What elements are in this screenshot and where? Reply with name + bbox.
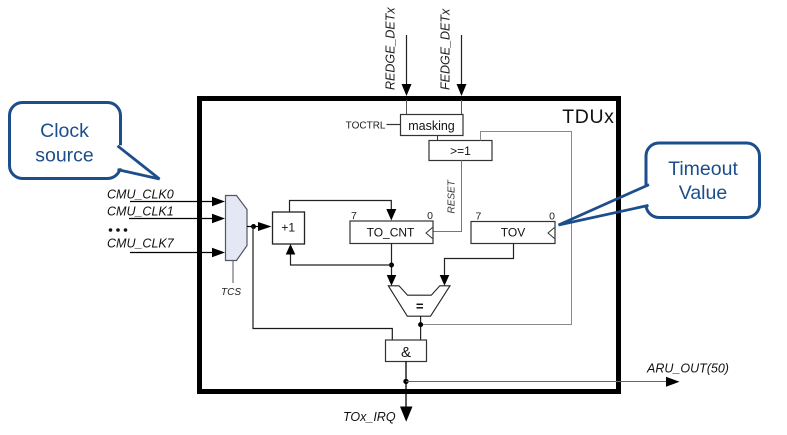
- comparator = (equality): [388, 286, 450, 316]
- module boundary TDUx: [200, 99, 619, 392]
- ellipsis dots: [109, 228, 113, 232]
- svg-text:REDGE_DETx: REDGE_DETx: [384, 7, 398, 90]
- wire ARU_OUT(50): [406, 381, 667, 383]
- svg-text:CMU_CLK7: CMU_CLK7: [107, 237, 175, 251]
- svg-text:TDUx: TDUx: [562, 106, 614, 128]
- wire CMU_CLK1: [129, 218, 213, 220]
- svg-text:TOx_IRQ: TOx_IRQ: [343, 410, 396, 424]
- OR gate >=1: [429, 141, 492, 161]
- wire comparator output to AND gate: [420, 316, 422, 340]
- arrowhead ARU_OUT: [666, 377, 680, 387]
- svg-text:TOCTRL: TOCTRL: [346, 121, 386, 132]
- callout bubble Timeout Value: [559, 143, 760, 225]
- junction mux output: [251, 224, 256, 229]
- wire +1 to TO_CNT: [290, 201, 397, 221]
- junction TO_CNT output: [389, 263, 394, 268]
- junction comparator output: [418, 322, 423, 327]
- mux TCS input arrows: [129, 197, 225, 258]
- svg-text:Clock: Clock: [40, 120, 89, 142]
- svg-text:&: &: [401, 344, 411, 361]
- junction AND output: [403, 379, 408, 384]
- wire mux junction to AND gate (left input): [253, 227, 392, 341]
- wire feedback from comparator output to OR gate: [421, 132, 572, 325]
- svg-text:ARU_OUT(50): ARU_OUT(50): [646, 362, 729, 376]
- wire TOV output to comparator right input: [440, 244, 514, 286]
- counter TO_CNT: [350, 210, 433, 244]
- svg-text:TOV: TOV: [501, 226, 525, 240]
- wire AND output down to TOx_IRQ: [405, 362, 407, 411]
- incrementer +1: [273, 212, 305, 244]
- clock marker TO_CNT: [426, 228, 433, 239]
- AND gate &: [386, 340, 427, 362]
- arrow into comparator left input: [387, 275, 397, 286]
- wire REDGE_DETx input arrow: [402, 35, 412, 115]
- mux TCS (clock selector): [226, 196, 248, 261]
- svg-text:FEDGE_DETx: FEDGE_DETx: [439, 8, 453, 90]
- arrowhead TOx_IRQ: [400, 407, 413, 422]
- register TOV: [471, 211, 555, 244]
- svg-text:CMU_CLK0: CMU_CLK0: [107, 188, 174, 202]
- svg-text:0: 0: [427, 210, 433, 222]
- svg-text:TCS: TCS: [221, 287, 241, 298]
- wire TOCTRL to masking: [387, 124, 401, 126]
- svg-text:+1: +1: [281, 221, 295, 235]
- callout bubble Clock source: [10, 103, 160, 180]
- clock marker TOV: [548, 228, 555, 239]
- svg-text:0: 0: [549, 211, 555, 223]
- wire TCS stub: [232, 261, 234, 284]
- block masking: [401, 115, 464, 136]
- wire TO_CNT output feedback to +1: [286, 244, 392, 265]
- svg-text:CMU_CLK1: CMU_CLK1: [107, 205, 174, 219]
- svg-text:Timeout: Timeout: [668, 158, 738, 180]
- svg-text:TO_CNT: TO_CNT: [367, 226, 415, 240]
- svg-text:masking: masking: [408, 119, 455, 133]
- wire CMU_CLK7: [130, 252, 213, 254]
- wire TO_CNT output down: [391, 244, 393, 278]
- wire FEDGE_DETx input arrow: [457, 35, 467, 115]
- svg-text:Value: Value: [679, 182, 727, 204]
- wire CMU_CLK0: [130, 201, 213, 203]
- wire mux output to +1: [247, 222, 272, 231]
- wire masking to OR gate: [437, 136, 439, 141]
- svg-text:RESET: RESET: [447, 179, 458, 213]
- svg-text:7: 7: [476, 211, 482, 223]
- svg-text:source: source: [35, 145, 94, 167]
- wire RESET from OR gate to TO_CNT: [433, 161, 462, 232]
- svg-text:>=1: >=1: [450, 144, 471, 158]
- svg-text:7: 7: [351, 210, 357, 222]
